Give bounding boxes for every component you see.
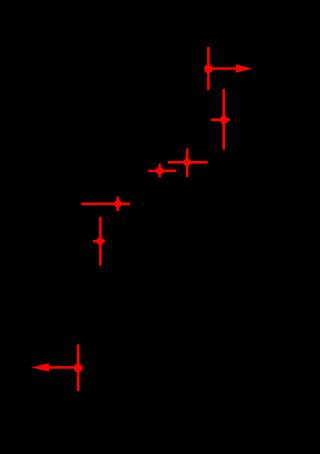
data point P1 right arrowhead (236, 64, 253, 73)
data point P7 left arrowhead (31, 363, 49, 371)
data point P1 marker (204, 65, 213, 74)
data point P7 vertical error bar (77, 344, 80, 391)
data point P6 marker (96, 237, 105, 246)
data point P6 vertical error bar (99, 217, 102, 266)
data point P4 vertical error bar (186, 149, 189, 178)
data point P5 marker (114, 200, 123, 209)
data point P1 right-limit line (208, 67, 238, 70)
data point P5 vertical error bar (117, 197, 120, 211)
data point P3 marker (156, 167, 165, 176)
data point P3 horizontal error bar (148, 170, 176, 173)
data point P6 horizontal error bar (93, 240, 105, 243)
data point P7 left-limit line (49, 366, 79, 369)
data point P4 marker (183, 158, 192, 167)
data point P4 horizontal error bar (168, 161, 208, 164)
data point P3 vertical error bar (159, 164, 162, 178)
data point P7 marker (74, 364, 83, 373)
data point P2 horizontal error bar (211, 118, 230, 121)
data point P5 horizontal error bar (81, 203, 130, 206)
data point P2 marker (218, 114, 229, 125)
data point P1 vertical error bar (207, 47, 210, 90)
data point P2 vertical error bar (222, 89, 225, 150)
